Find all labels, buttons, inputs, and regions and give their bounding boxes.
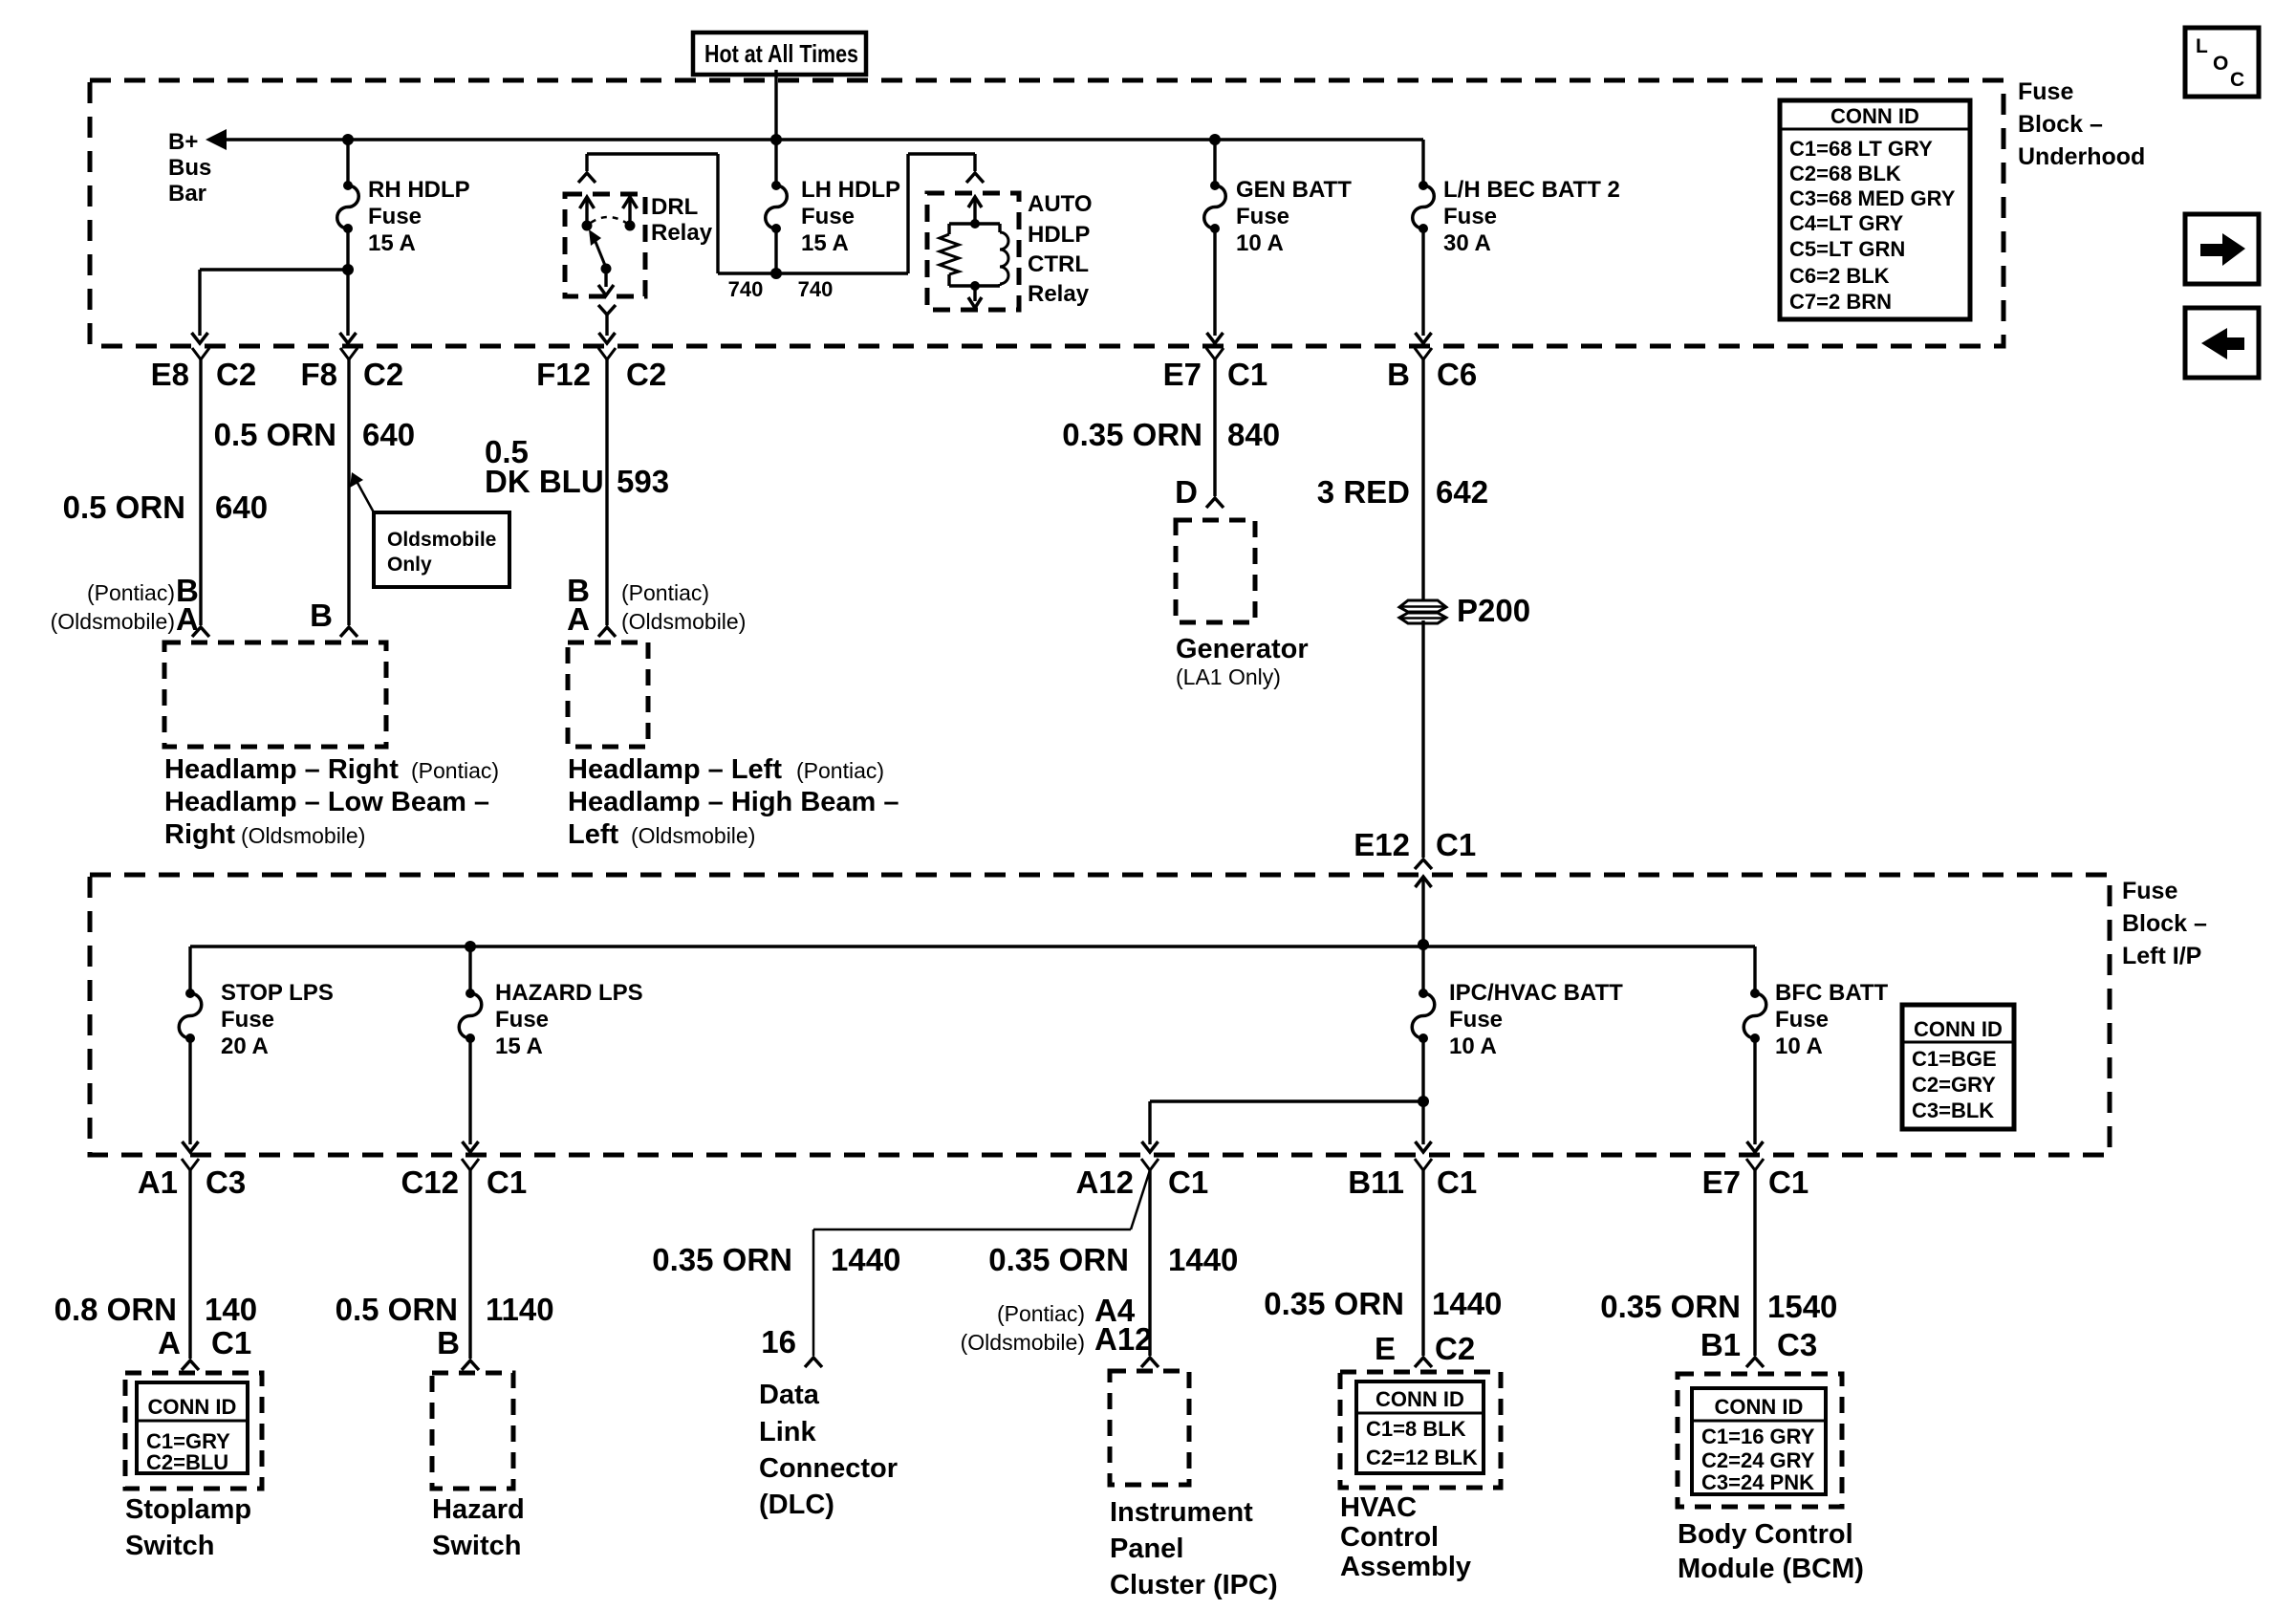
label 0.5 ORN 640 (E8 wire) [63,490,268,525]
wire 3 RED 642 upper [1421,359,1424,599]
svg-text:Switch: Switch [125,1531,214,1561]
label STOP LPS Fuse 20 A [221,980,334,1059]
svg-text:C2: C2 [1435,1331,1475,1366]
label 3 RED 642 [1317,474,1488,510]
svg-text:A12: A12 [1094,1321,1153,1357]
svg-text:Only: Only [387,554,432,576]
svg-text:F8: F8 [300,357,337,392]
label 0.5 DK BLU 593 [485,434,669,499]
node: bus junction at RH HDLP fuse [342,134,354,145]
component HVAC control assembly dashed box [1340,1372,1501,1488]
power label box: Hot at All Times [693,33,866,75]
label LH HDLP Fuse 15 A [801,177,900,256]
arrow into F8 connector [340,333,357,343]
svg-text:Body Control: Body Control [1678,1519,1853,1550]
svg-text:Fuse: Fuse [221,1007,274,1033]
AUTO relay node bottom [970,281,980,291]
svg-text:Headlamp – High Beam –: Headlamp – High Beam – [568,787,899,817]
connector chevron at hazard switch [462,1360,479,1370]
label pin 16 DLC [761,1324,796,1360]
AUTO relay node top [970,219,980,228]
node: feed junction at E12 wire [1418,939,1429,950]
svg-text:B: B [437,1325,460,1360]
svg-text:HVAC: HVAC [1340,1492,1417,1523]
wire 0.35 ORN 1540 to BCM [1753,1170,1756,1356]
AUTO relay coil [975,224,1008,286]
wire IPC fuse to split node [1421,1038,1424,1101]
wire LH HDLP fuse feed [774,140,777,185]
svg-text:Bus: Bus [168,155,211,181]
svg-text:Data: Data [759,1380,820,1410]
component generator dashed box [1176,520,1255,622]
label 0.5 ORN 640 (F8 wire) [214,417,415,452]
node: branch junction below RH fuse [342,264,354,275]
wire bus to HAZARD fuse [468,946,471,993]
svg-text:O: O [2213,53,2228,75]
svg-text:C3: C3 [206,1164,246,1200]
wire RH fuse to branch node [346,228,349,270]
conn id table BCM [1692,1388,1826,1494]
wire from Hot at All Times to B+ bus [774,70,777,140]
svg-text:642: 642 [1436,474,1488,510]
svg-text:Relay: Relay [651,220,713,246]
wire GEN fuse to E7 connector [1213,228,1216,336]
svg-text:(Pontiac): (Pontiac) [997,1301,1085,1326]
wire bus to IPC/HVAC fuse [1421,946,1424,993]
wire BEC fuse to B connector [1421,228,1424,336]
svg-text:CONN ID: CONN ID [1914,1017,2003,1041]
node: 740 junction [770,268,782,279]
svg-text:C1=68 LT GRY: C1=68 LT GRY [1789,137,1933,161]
conn id table stoplamp [137,1382,248,1474]
svg-text:CONN ID: CONN ID [148,1395,237,1419]
svg-text:B1: B1 [1700,1327,1741,1362]
svg-text:P200: P200 [1457,593,1530,628]
svg-text:Headlamp – Low Beam –: Headlamp – Low Beam – [164,787,489,817]
svg-text:IPC/HVAC BATT: IPC/HVAC BATT [1449,980,1623,1006]
svg-text:0.8 ORN: 0.8 ORN [54,1292,177,1327]
svg-text:1440: 1440 [1168,1242,1238,1277]
svg-text:0.5 ORN: 0.5 ORN [63,490,185,525]
component headlamp left dashed box [568,642,648,747]
label Fuse Block - Left I/P [2122,878,2207,969]
connector chevron at headlamp left pin [598,627,616,637]
svg-text:C2: C2 [216,357,256,392]
connector E12/C1 into left I/P block [1354,827,1476,869]
DRL relay output arrow [598,269,614,295]
svg-text:F12: F12 [536,357,591,392]
svg-text:C6=2 BLK: C6=2 BLK [1789,264,1890,288]
svg-text:Fuse: Fuse [368,204,422,229]
svg-text:Block –: Block – [2018,111,2103,138]
label Stoplamp Switch [125,1494,251,1561]
connector B/C6 of underhood block [1387,348,1477,392]
svg-text:C2: C2 [626,357,666,392]
label Fuse Block - Underhood [2018,78,2145,170]
label pin A / C1 stoplamp [158,1325,251,1360]
component hazard switch dashed box [432,1373,513,1489]
connector chevron at HVAC [1415,1358,1432,1367]
svg-text:C5=LT GRN: C5=LT GRN [1789,237,1905,261]
svg-text:Fuse: Fuse [801,204,855,229]
svg-text:Module (BCM): Module (BCM) [1678,1554,1864,1584]
svg-text:CONN ID: CONN ID [1715,1395,1804,1419]
svg-text:0.35 ORN: 0.35 ORN [1264,1286,1404,1321]
label IPC/HVAC BATT Fuse 10 A [1449,980,1623,1059]
svg-text:Fuse: Fuse [495,1007,549,1033]
connector chevron at generator pin D [1206,498,1224,508]
label 0.35 ORN 1440 (DLC wire) [652,1242,900,1277]
label RH HDLP Fuse 15 A [368,177,470,256]
wire bus corner to BFC fuse [1753,946,1756,993]
svg-text:CONN ID: CONN ID [1830,104,1919,128]
wire STOP fuse to A1 [188,1038,191,1144]
label Body Control Module (BCM) [1678,1519,1864,1584]
svg-text:Relay: Relay [1028,281,1090,307]
fuse block - underhood dashed box [90,80,2004,346]
svg-text:C7=2 BRN: C7=2 BRN [1789,290,1892,314]
label pin B hazard [437,1325,460,1360]
svg-text:B: B [310,598,333,633]
wire A12 diagonal to DLC run [813,1170,1150,1356]
label 0.35 ORN 1440 (HVAC wire) [1264,1286,1502,1321]
label Hazard Switch [432,1494,525,1561]
svg-text:1440: 1440 [1432,1286,1502,1321]
B+ bus bar wire with left arrow [206,129,1423,150]
svg-text:(DLC): (DLC) [759,1490,834,1520]
label 0.35 ORN 1540 [1600,1289,1837,1324]
svg-text:Instrument: Instrument [1110,1497,1253,1528]
svg-text:B11: B11 [1348,1164,1404,1200]
label Generator (LA1 Only) [1176,634,1309,689]
fuse HAZARD LPS 15A [459,989,482,1043]
svg-text:GEN BATT: GEN BATT [1236,177,1352,203]
svg-text:BFC BATT: BFC BATT [1775,980,1889,1006]
component body control module dashed box [1678,1374,1842,1507]
svg-text:L: L [2196,35,2208,57]
svg-text:C1: C1 [487,1164,527,1200]
connector chevron at headlamp right pin A [192,627,209,637]
svg-text:(Oldsmobile): (Oldsmobile) [961,1330,1085,1355]
svg-text:C3=BLK: C3=BLK [1912,1099,1994,1122]
svg-text:HDLP: HDLP [1028,222,1090,248]
svg-text:RH HDLP: RH HDLP [368,177,470,203]
svg-text:(Oldsmobile): (Oldsmobile) [631,823,755,848]
svg-text:Assembly: Assembly [1340,1552,1471,1582]
svg-text:(Pontiac): (Pontiac) [796,758,884,783]
svg-text:Fuse: Fuse [2018,78,2073,105]
svg-text:C1: C1 [1768,1164,1809,1200]
wire LH fuse to 740 node [774,228,777,273]
svg-text:Left I/P: Left I/P [2122,943,2201,969]
wire HAZARD fuse to C12 [468,1038,471,1144]
svg-text:Control: Control [1340,1522,1439,1553]
wire 0.35 ORN 840 from E7 [1213,359,1216,496]
label 0.5 ORN 1140 [336,1292,554,1327]
svg-text:C1: C1 [1168,1164,1208,1200]
wire bus to GEN BATT fuse [1213,140,1216,185]
svg-text:C2=GRY: C2=GRY [1912,1073,1996,1097]
svg-text:(Pontiac): (Pontiac) [87,580,175,605]
wire split to A12 drop [1150,1101,1423,1144]
svg-text:C2=24 GRY: C2=24 GRY [1701,1448,1815,1472]
svg-text:C1: C1 [211,1325,251,1360]
AUTO relay coil input arrow [968,197,982,224]
wire 0.35 ORN 1440 to HVAC [1421,1170,1424,1356]
label Instrument Panel Cluster (IPC) [1110,1497,1278,1600]
svg-text:A1: A1 [138,1164,178,1200]
icon box LOC [2185,28,2259,97]
fuse L/H BEC BATT 2 30A [1413,181,1435,233]
svg-text:840: 840 [1227,417,1280,452]
node: IPC/DLC split junction [1418,1096,1429,1107]
svg-text:C: C [2230,69,2244,91]
fuse GEN BATT 10A [1204,181,1226,233]
wire 0.8 ORN 140 [188,1170,191,1359]
connector E7/C1 of underhood block [1163,348,1268,392]
svg-text:593: 593 [617,464,669,499]
svg-text:A: A [158,1325,181,1360]
connector chevron at IPC [1141,1358,1159,1367]
svg-text:Fuse: Fuse [1443,204,1497,229]
svg-text:C12: C12 [401,1164,459,1200]
svg-text:CONN ID: CONN ID [1375,1387,1464,1411]
svg-text:Right: Right [164,819,235,850]
wire 740 node to AUTO HDLP CTRL relay [776,154,975,273]
svg-text:C3=68 MED GRY: C3=68 MED GRY [1789,186,1956,210]
svg-text:740: 740 [798,277,834,301]
label Headlamp - Left (Pontiac) [568,754,899,850]
svg-text:C1: C1 [1227,357,1267,392]
AUTO relay resistor [940,224,975,286]
svg-text:C1=BGE: C1=BGE [1912,1047,1997,1071]
svg-text:Cluster (IPC): Cluster (IPC) [1110,1570,1278,1600]
svg-text:C2: C2 [363,357,403,392]
connector C12/C1 of left I/P block [401,1159,527,1200]
wire split to B11 drop [1421,1101,1424,1144]
svg-text:(Oldsmobile): (Oldsmobile) [241,823,365,848]
label L/H BEC BATT 2 Fuse 30 A [1443,177,1620,256]
AUTO relay output arrow [968,286,982,308]
svg-text:3 RED: 3 RED [1317,474,1410,510]
label P200 [1457,593,1530,628]
svg-text:(Oldsmobile): (Oldsmobile) [51,609,175,634]
wire 0.5 ORN 640 from E8 [199,359,202,625]
connector A12/C1 of left I/P block [1075,1159,1208,1200]
wire DRL output to F12 [605,315,608,336]
arrow into E8 connector [192,333,208,343]
wire bus corner to STOP LPS fuse [188,946,191,993]
svg-text:Stoplamp: Stoplamp [125,1494,251,1525]
label pin B (Pontiac) headlamp left [567,573,709,608]
label pin B (Pontiac) headlamp right [87,573,199,608]
svg-text:(Pontiac): (Pontiac) [621,580,709,605]
wire 0.5 ORN 640 from F8 [347,359,350,625]
fuse block - left I/P dashed box [90,875,2110,1155]
conn id table left I/P [1902,1005,2014,1129]
connector A1/C3 of left I/P block [138,1159,246,1200]
DRL relay switch blade [589,229,612,274]
svg-text:C2=68 BLK: C2=68 BLK [1789,162,1901,185]
connector chevron at headlamp right pin B [340,627,357,637]
label pin A (Oldsmobile) headlamp right [51,601,199,637]
arrow into C12 connector [463,1142,479,1152]
arrow into E7 lower connector [1747,1142,1764,1152]
svg-text:E12: E12 [1354,827,1410,862]
label 0.8 ORN 140 [54,1292,257,1327]
icon box arrow right [2185,214,2259,284]
label B+ Bus Bar [168,129,211,207]
connector F8/C2 of underhood block [300,348,403,392]
label DRL Relay [651,194,713,246]
relay AUTO HDLP CTRL dashed box [927,193,1019,310]
component stoplamp switch dashed box [125,1373,262,1489]
label 0.35 ORN 1440 (IPC wire) [988,1242,1238,1277]
svg-text:Headlamp – Left: Headlamp – Left [568,754,782,785]
component instrument panel cluster dashed box [1110,1371,1189,1485]
label circuit 740 right [798,277,834,301]
fuse BFC BATT 10A [1744,989,1766,1043]
svg-text:E7: E7 [1163,357,1202,392]
svg-text:DRL: DRL [651,194,698,220]
node: bus junction at LH HDLP fuse [770,134,782,145]
connector chevron at BCM [1746,1358,1764,1367]
svg-text:10 A: 10 A [1236,230,1284,256]
svg-text:0.5 ORN: 0.5 ORN [214,417,336,452]
svg-text:Fuse: Fuse [1775,1007,1829,1033]
svg-text:Switch: Switch [432,1531,521,1561]
label circuit 740 left [728,277,764,301]
svg-text:E: E [1375,1331,1396,1366]
svg-text:Link: Link [759,1417,816,1447]
svg-text:1540: 1540 [1767,1289,1837,1324]
icon box arrow left [2185,308,2259,378]
component headlamp right dashed box [164,642,386,747]
wire BFC fuse to E7 [1753,1038,1756,1144]
DRL relay contact link dashed [591,217,626,223]
svg-text:15 A: 15 A [801,230,849,256]
svg-text:0.35 ORN: 0.35 ORN [1600,1289,1741,1324]
DRL relay contact right [623,197,638,231]
conn id table underhood [1780,100,1970,319]
label Data Link Connector (DLC) [759,1380,898,1520]
svg-text:Hot at All Times: Hot at All Times [704,39,858,68]
callout box Oldsmobile Only [350,472,509,587]
arrow into B11 connector [1416,1142,1432,1152]
svg-text:740: 740 [728,277,764,301]
wire 0.5 ORN 1140 [468,1170,471,1359]
wire branch to E8 drop [200,270,348,336]
svg-text:HAZARD LPS: HAZARD LPS [495,980,643,1006]
inline connector on DRL output [598,305,616,315]
label pin A4 (Pontiac) IPC [997,1293,1136,1328]
svg-text:CTRL: CTRL [1028,251,1089,277]
svg-text:C1: C1 [1437,1164,1477,1200]
svg-text:AUTO: AUTO [1028,191,1093,217]
svg-text:10 A: 10 A [1775,1033,1823,1059]
svg-text:Fuse: Fuse [2122,878,2177,904]
svg-text:C4=LT GRY: C4=LT GRY [1789,211,1904,235]
wire bus corner to L/H BEC fuse [1421,140,1424,185]
svg-text:Left: Left [568,819,619,850]
svg-text:D: D [1175,474,1198,510]
label pin A (Oldsmobile) headlamp left [567,601,746,637]
label pin D generator [1175,474,1198,510]
svg-text:C1=8 BLK: C1=8 BLK [1366,1417,1466,1441]
svg-text:640: 640 [215,490,268,525]
svg-text:B+: B+ [168,129,198,155]
svg-text:A: A [567,601,590,637]
svg-text:Connector: Connector [759,1453,898,1484]
connector chevron at stoplamp switch [182,1360,199,1370]
svg-text:Generator: Generator [1176,634,1309,664]
svg-text:C1: C1 [1436,827,1476,862]
svg-text:Bar: Bar [168,181,206,207]
svg-text:Hazard: Hazard [432,1494,525,1525]
svg-text:1440: 1440 [831,1242,900,1277]
svg-text:0.35 ORN: 0.35 ORN [988,1242,1129,1277]
label pin E / C2 HVAC [1375,1331,1475,1366]
svg-text:30 A: 30 A [1443,230,1491,256]
arrow E12 entering left I/P block [1416,877,1432,945]
I/P bus wire [190,945,1755,947]
label HAZARD LPS Fuse 15 A [495,980,643,1059]
svg-text:LH HDLP: LH HDLP [801,177,900,203]
arrow into F12 connector [599,333,616,343]
svg-text:Headlamp – Right: Headlamp – Right [164,754,399,785]
splice P200 [1399,600,1446,623]
wire 0.35 ORN 1440 to IPC [1148,1170,1151,1356]
fuse RH HDLP 15A [337,181,359,233]
conn id table HVAC [1356,1382,1484,1473]
arrow into E7 connector [1207,333,1224,343]
wire bus to RH HDLP fuse [346,140,349,185]
fuse LH HDLP 15A [766,181,788,233]
connector B11/C1 of left I/P block [1348,1159,1477,1200]
connector E8/C2 of underhood block [151,348,257,392]
arrow into A1 connector [183,1142,199,1152]
label pin B1 / C3 BCM [1700,1327,1817,1362]
label GEN BATT Fuse 10 A [1236,177,1352,256]
svg-text:A12: A12 [1075,1164,1134,1200]
connector E7/C1 of left I/P block [1702,1159,1809,1200]
connector F12/C2 of underhood block [536,348,666,392]
fuse IPC/HVAC BATT 10A [1412,989,1435,1043]
svg-text:C6: C6 [1437,357,1477,392]
svg-text:C2=BLU: C2=BLU [146,1450,228,1474]
svg-text:16: 16 [761,1324,796,1360]
wire 3 RED 642 lower [1421,620,1424,858]
svg-text:Underhood: Underhood [2018,143,2145,170]
svg-text:15 A: 15 A [368,230,416,256]
svg-text:Panel: Panel [1110,1534,1183,1564]
wire 740 node to DRL relay [587,154,776,273]
svg-text:E8: E8 [151,357,189,392]
svg-text:Oldsmobile: Oldsmobile [387,529,496,551]
svg-text:20 A: 20 A [221,1033,269,1059]
relay DRL dashed box [565,194,645,296]
svg-text:640: 640 [362,417,415,452]
label BFC BATT Fuse 10 A [1775,980,1889,1059]
wire RH fuse node to F8 drop [346,270,349,336]
svg-text:(LA1 Only): (LA1 Only) [1176,664,1281,689]
svg-text:L/H BEC BATT 2: L/H BEC BATT 2 [1443,177,1620,203]
svg-text:C1=16 GRY: C1=16 GRY [1701,1425,1815,1448]
svg-text:STOP LPS: STOP LPS [221,980,334,1006]
svg-text:C3: C3 [1777,1327,1817,1362]
label pin A12 (Oldsmobile) IPC [961,1321,1153,1357]
svg-text:E7: E7 [1702,1164,1741,1200]
